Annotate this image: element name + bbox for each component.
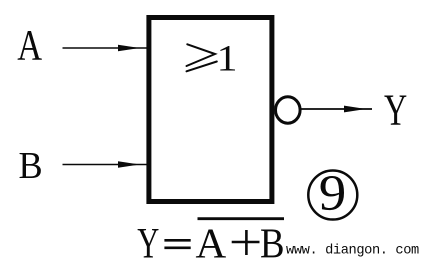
- svg-text:A: A: [196, 221, 227, 264]
- svg-text:B: B: [260, 220, 285, 264]
- svg-text:Y: Y: [137, 221, 159, 264]
- svg-text:A: A: [17, 22, 42, 69]
- svg-text:Y: Y: [384, 87, 407, 135]
- equation Y = A+B with NOR overline: [137, 219, 284, 264]
- wire input B with arrowhead: [63, 161, 148, 167]
- equation plus sign: [232, 241, 260, 244]
- NOR overline bar: [198, 217, 285, 220]
- svg-text:B: B: [19, 145, 43, 187]
- wire input A with arrowhead: [63, 45, 148, 51]
- svg-text:www. diangon. com: www. diangon. com: [286, 244, 419, 259]
- equation equals sign: [164, 239, 190, 242]
- NOR gate U1 body: [149, 18, 272, 202]
- svg-text:1: 1: [217, 38, 238, 79]
- inversion bubble on output: [276, 97, 301, 123]
- wire output Y with arrowhead: [301, 106, 373, 113]
- figure number circle: [308, 171, 357, 220]
- svg-text:9: 9: [319, 166, 347, 221]
- gate function qualifier ≥: [187, 44, 217, 71]
